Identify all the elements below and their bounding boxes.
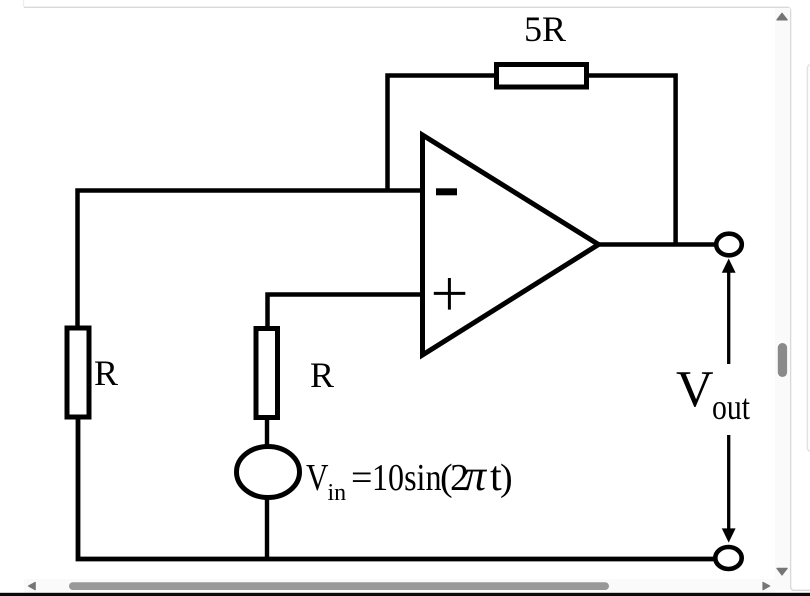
svg-text:=: = xyxy=(351,457,372,499)
Vout arrow down xyxy=(727,435,730,529)
viewer panel top/right border xyxy=(23,0,25,7)
scrollbar right arrow xyxy=(763,582,770,589)
svg-text:V: V xyxy=(306,457,329,499)
wire: non-inverting input (from resistor R2 up and right to op-amp plus) xyxy=(268,295,423,327)
output terminal (top) xyxy=(716,234,742,256)
wire: source top lead xyxy=(265,420,269,447)
scrollbar left arrow xyxy=(29,582,36,589)
resistor 5R (feedback) xyxy=(497,65,587,88)
wire: bottom ground rail xyxy=(78,420,714,560)
svg-text:R: R xyxy=(310,355,334,395)
bottom black bar xyxy=(0,593,810,596)
svg-text:V: V xyxy=(676,361,714,418)
resistor R1 (left) xyxy=(67,328,89,417)
output terminal (bottom) xyxy=(715,547,741,569)
wire: inverting input (left node to op-amp minus) xyxy=(78,191,423,327)
voltage source Vin xyxy=(237,447,300,498)
wire: feedback right segment (5R to output node) xyxy=(589,76,676,245)
op-amp plus symbol xyxy=(434,278,466,310)
scrollbar up arrow xyxy=(777,13,787,20)
Vout arrow up xyxy=(727,270,730,364)
op-amp minus symbol xyxy=(436,188,457,195)
right-side card border xyxy=(807,65,810,452)
svg-text:): ) xyxy=(500,457,513,499)
svg-text:in: in xyxy=(328,480,347,506)
vertical scrollbar thumb xyxy=(778,343,787,377)
svg-text:π: π xyxy=(464,451,488,500)
horizontal scrollbar track xyxy=(24,579,775,593)
svg-text:10sin: 10sin xyxy=(372,457,442,499)
svg-text:R: R xyxy=(94,353,118,393)
op-amp U1 xyxy=(423,135,599,355)
wire: op-amp output to terminal xyxy=(599,242,715,247)
scrollbar down arrow xyxy=(777,568,787,575)
svg-text:5R: 5R xyxy=(524,9,566,49)
resistor R2 (middle) xyxy=(256,329,278,418)
wire: feedback left segment (down from 5R to inverting input node) xyxy=(388,76,495,191)
vertical scrollbar track xyxy=(775,8,790,590)
svg-text:out: out xyxy=(712,387,750,427)
wire: source bottom lead xyxy=(265,497,269,559)
horizontal scrollbar thumb xyxy=(69,582,609,590)
